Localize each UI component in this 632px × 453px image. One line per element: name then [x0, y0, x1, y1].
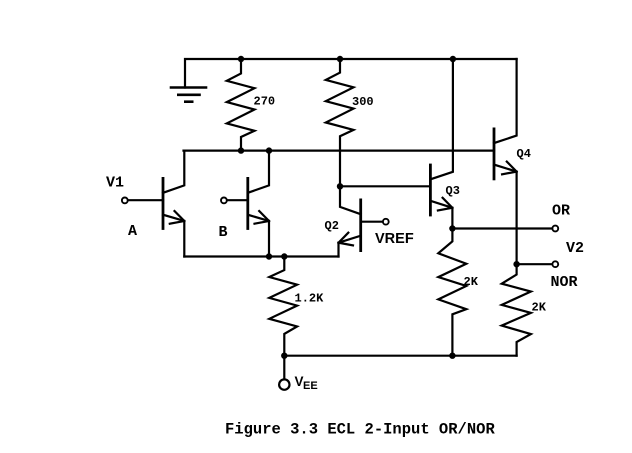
- svg-text:2K: 2K: [532, 301, 547, 315]
- svg-text:2K: 2K: [464, 275, 479, 289]
- svg-text:OR: OR: [552, 203, 570, 220]
- svg-text:Figure 3.3 ECL 2-Input OR/NOR: Figure 3.3 ECL 2-Input OR/NOR: [225, 421, 495, 439]
- svg-text:Q4: Q4: [517, 147, 531, 161]
- transistor Q4: [494, 59, 517, 264]
- wire NOR output: [517, 263, 553, 265]
- svg-text:Q2: Q2: [325, 219, 339, 233]
- resistor R 300: [326, 59, 354, 186]
- wire emitter rail A/B/Q2: [184, 255, 338, 257]
- wire top rail VCC/GND: [185, 59, 517, 88]
- svg-text:NOR: NOR: [551, 274, 578, 291]
- terminal VEE: [279, 379, 289, 389]
- junction 2K bottom / rail: [449, 353, 455, 359]
- junction top rail / Q3 collector: [450, 56, 456, 62]
- wire Q2 collector node to Q3 base: [340, 185, 430, 187]
- svg-text:Q3: Q3: [446, 184, 460, 198]
- svg-text:A: A: [128, 223, 137, 240]
- junction VEE node: [281, 353, 287, 359]
- svg-text:EE: EE: [303, 380, 318, 392]
- terminal OR output: [552, 226, 558, 232]
- svg-text:B: B: [219, 224, 228, 241]
- terminal NOR output: [552, 261, 558, 267]
- transistor Q3: [430, 59, 453, 229]
- svg-text:1.2K: 1.2K: [295, 291, 325, 305]
- resistor R 2K (OR pulldown): [438, 229, 466, 356]
- junction top rail / R300: [337, 56, 343, 62]
- node NOR (Q4 emitter): [513, 261, 519, 267]
- transistor Q B: [227, 151, 269, 257]
- terminal V1 input: [122, 198, 128, 204]
- resistor R 2K (NOR pulldown): [502, 264, 531, 356]
- transistor Q A: [128, 151, 184, 257]
- wire VEE stub: [283, 356, 285, 380]
- resistor R 270: [227, 59, 255, 151]
- wire bottom rail VEE: [284, 355, 516, 357]
- junction R300 / Q2 collector / Q3 base: [337, 183, 343, 189]
- terminal VREF input: [383, 219, 389, 225]
- junction B collector / rail: [266, 147, 272, 153]
- svg-text:VREF: VREF: [375, 231, 414, 247]
- resistor R 1.2K: [269, 257, 297, 356]
- svg-text:V1: V1: [106, 174, 124, 191]
- wire OR output: [452, 227, 552, 229]
- junction R1.2K top / rail: [281, 253, 287, 259]
- junction top rail / R270: [238, 56, 244, 62]
- ground: [171, 88, 206, 102]
- terminal B input: [221, 198, 227, 204]
- junction R270 / rail: [238, 147, 244, 153]
- svg-text:V2: V2: [566, 240, 584, 257]
- svg-text:300: 300: [352, 95, 374, 109]
- transistor Q2: [339, 186, 383, 256]
- node OR (Q3 emitter): [449, 225, 455, 231]
- junction B emitter / rail: [266, 253, 272, 259]
- wire rail collectors A/B to Q4 base: [184, 150, 495, 152]
- svg-text:270: 270: [254, 95, 276, 109]
